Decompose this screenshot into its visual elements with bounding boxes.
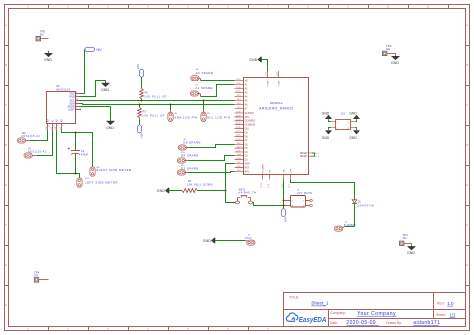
svg-text:D13/SCK: D13/SCK bbox=[245, 113, 255, 115]
connector J13 LEFT SIDE METER bbox=[77, 178, 118, 187]
svg-text:H: H bbox=[5, 303, 7, 307]
svg-text:11.21: 11.21 bbox=[236, 131, 241, 133]
+5V net flag below J3 bbox=[282, 208, 288, 222]
wire KEY1 to +5V node bbox=[252, 203, 283, 206]
node J6/SCL bbox=[203, 100, 205, 102]
svg-text:7: 7 bbox=[62, 126, 63, 128]
wire U2 A3 to right meter bbox=[62, 131, 93, 167]
+5V net flag above R2 bbox=[136, 64, 143, 78]
svg-text:A: A bbox=[5, 23, 7, 27]
svg-text:6: 6 bbox=[57, 126, 58, 128]
svg-text:1.0: 1.0 bbox=[447, 301, 454, 306]
svg-text:Company:: Company: bbox=[330, 311, 346, 315]
wire hole pin4 to ground bbox=[355, 128, 356, 131]
svg-text:G: G bbox=[466, 263, 468, 267]
wire hole pin1 to ground bbox=[329, 119, 331, 121]
wire J15 to module RX0 bbox=[188, 172, 235, 173]
svg-text:8: 8 bbox=[76, 92, 77, 94]
diode D1 1N4007W bbox=[352, 200, 374, 208]
svg-text:+5A: +5A bbox=[282, 169, 285, 173]
svg-text:10K PULL UP: 10K PULL UP bbox=[144, 95, 167, 99]
svg-text:A4-B4S_TH: A4-B4S_TH bbox=[238, 190, 256, 194]
svg-text:ALRT: ALRT bbox=[68, 108, 75, 112]
ground below TP1 bbox=[408, 247, 416, 250]
test point TP1 bbox=[400, 233, 412, 246]
wire U2 A1 to J9 bbox=[37, 131, 53, 156]
title block bbox=[284, 293, 466, 327]
svg-text:11.16: 11.16 bbox=[236, 112, 241, 114]
svg-text:12.11: 12.11 bbox=[261, 183, 263, 188]
resistor R3 10K PULL UP bbox=[138, 105, 165, 125]
svg-text:11.6: 11.6 bbox=[237, 107, 241, 109]
U2 bottom pins A0-A3 bbox=[48, 124, 62, 131]
svg-text:D12/MISO: D12/MISO bbox=[245, 121, 256, 123]
wire U2 GND pin to ground bbox=[80, 81, 106, 97]
svg-text:12.8: 12.8 bbox=[268, 184, 270, 188]
svg-text:GND: GND bbox=[322, 136, 330, 140]
svg-text:Drawn By:: Drawn By: bbox=[386, 321, 402, 325]
svg-text:A: A bbox=[466, 23, 468, 27]
svg-text:RX0: RX0 bbox=[245, 171, 250, 173]
svg-text:GND: GND bbox=[106, 126, 114, 130]
wire +VIN pin to diode D1 bbox=[291, 180, 355, 200]
svg-text:C: C bbox=[466, 103, 468, 107]
svg-text:11.22: 11.22 bbox=[236, 135, 241, 137]
svg-text:+5V: +5V bbox=[284, 217, 288, 222]
svg-text:GND: GND bbox=[69, 95, 75, 99]
wire J14 to module D3 bbox=[188, 156, 235, 161]
node C1 bottom bbox=[75, 173, 77, 175]
svg-text:COM: COM bbox=[267, 80, 269, 85]
ground hole bottom-right bbox=[354, 131, 360, 134]
wire J8 to module A0 bbox=[201, 80, 235, 82]
svg-text:B: B bbox=[5, 63, 7, 67]
svg-text:10.4: 10.4 bbox=[237, 103, 241, 105]
node J5/SDA bbox=[170, 104, 172, 106]
node R3/SDA bbox=[139, 104, 141, 106]
svg-text:COM: COM bbox=[278, 80, 280, 85]
ground at U2 GND pin bbox=[102, 81, 110, 87]
svg-text:Sheet:: Sheet: bbox=[436, 313, 446, 317]
node J3 pin1 bbox=[283, 200, 285, 202]
svg-text:GND: GND bbox=[349, 136, 357, 140]
connector J7 A1 SPARE bbox=[190, 85, 213, 97]
module MODUL1 ARDUINO_NANO2 bbox=[244, 78, 309, 175]
+5V net flag to U2 VDD bbox=[85, 48, 103, 53]
wire +5V flag to U2 VDD pin bbox=[80, 50, 85, 94]
svg-text:+5V PINS: +5V PINS bbox=[296, 191, 312, 195]
svg-text:10.3: 10.3 bbox=[237, 99, 241, 101]
ground left of J1 VCC bbox=[212, 238, 215, 243]
wire RESET tie bbox=[312, 153, 315, 156]
svg-text:D11/MOSI: D11/MOSI bbox=[245, 125, 256, 127]
svg-text:11.19: 11.19 bbox=[236, 123, 241, 125]
svg-text:4: 4 bbox=[48, 126, 49, 128]
svg-text:E: E bbox=[466, 183, 468, 187]
wire SDA bus bbox=[80, 104, 235, 105]
svg-text:GND: GND bbox=[407, 251, 415, 255]
module top pins COM COM bbox=[268, 71, 279, 78]
connector J9 ADS1115-A1 bbox=[24, 148, 47, 159]
svg-text:B: B bbox=[466, 63, 468, 67]
svg-text:11.2: 11.2 bbox=[315, 153, 319, 155]
wire J5 to SDA bus bbox=[170, 105, 172, 111]
wire U2 A2 to left meter bbox=[57, 131, 80, 178]
connector J14 D5 SPARE bbox=[177, 152, 198, 163]
svg-text:+5V: +5V bbox=[140, 133, 144, 138]
svg-text:J11: J11 bbox=[341, 112, 346, 116]
connector J15 D3 SPARE bbox=[177, 165, 198, 175]
svg-text:GND: GND bbox=[203, 239, 211, 243]
wire hole pin3 to ground bbox=[355, 119, 356, 121]
svg-text:11.12: 11.12 bbox=[236, 83, 241, 85]
svg-text:GND: GND bbox=[391, 61, 399, 65]
svg-text:11.23: 11.23 bbox=[236, 139, 241, 141]
svg-text:SG: SG bbox=[403, 236, 408, 240]
svg-text:9: 9 bbox=[76, 102, 77, 104]
module RESET pins bbox=[309, 153, 312, 156]
svg-text:E: E bbox=[5, 183, 7, 187]
svg-text:RST: RST bbox=[245, 167, 250, 169]
svg-text:EasyEDA: EasyEDA bbox=[299, 315, 327, 324]
svg-text:1: 1 bbox=[76, 105, 77, 107]
svg-text:D: D bbox=[466, 143, 468, 147]
svg-text:11.11: 11.11 bbox=[236, 87, 240, 89]
module left pins bbox=[235, 81, 244, 172]
wire ground to COM pin bbox=[261, 60, 267, 72]
svg-text:G: G bbox=[5, 263, 7, 267]
wire J6 to SCL bus bbox=[203, 101, 205, 111]
svg-text:10.7: 10.7 bbox=[237, 147, 241, 149]
ground hole bottom-left bbox=[326, 131, 332, 134]
svg-text:Date:: Date: bbox=[330, 321, 338, 325]
svg-text:5-12VDC: 5-12VDC bbox=[344, 223, 356, 227]
connector J8 A0 SPARE bbox=[191, 69, 214, 81]
chip U2 ADS1115 bbox=[47, 84, 76, 123]
svg-text:SDA LCD PIN: SDA LCD PIN bbox=[174, 116, 198, 120]
connector J6 SCL LCD PIN bbox=[201, 110, 230, 121]
connector J12 RIGHT SIDE METER bbox=[90, 167, 132, 176]
ground at module top bbox=[258, 57, 261, 62]
svg-text:11.9: 11.9 bbox=[237, 95, 241, 97]
wire J4 to module D6 bbox=[189, 145, 235, 148]
connector J2 5-12VDC bbox=[335, 221, 356, 231]
node J3 pin3 bbox=[283, 205, 285, 207]
svg-text:VCC: VCC bbox=[245, 236, 252, 240]
svg-text:Sheet_1: Sheet_1 bbox=[311, 301, 329, 306]
svg-text:12.1: 12.1 bbox=[289, 184, 291, 188]
svg-text:TITLE:: TITLE: bbox=[289, 296, 299, 300]
test point TP5 bbox=[36, 29, 49, 41]
svg-text:C1: C1 bbox=[81, 149, 85, 153]
ground hole top-left bbox=[326, 116, 332, 119]
svg-text:10K PULL DOWN: 10K PULL DOWN bbox=[187, 183, 213, 187]
svg-text:RIGHT SIDE METER: RIGHT SIDE METER bbox=[96, 168, 131, 172]
connector J1 VCC bbox=[245, 234, 255, 245]
wire +5A pin to +5V flag bbox=[283, 180, 285, 209]
svg-text:11.17: 11.17 bbox=[236, 115, 241, 117]
connector J10 ADS1115-A0 bbox=[17, 132, 40, 143]
U2 right pins VDD GND SCL SDA ADDR ALRT bbox=[76, 94, 80, 110]
wire D1 to J2 bbox=[345, 203, 355, 226]
wire U2 A0 to J10 bbox=[30, 131, 48, 141]
svg-text:RESET: RESET bbox=[300, 156, 308, 158]
svg-text:+5V: +5V bbox=[96, 48, 103, 52]
ground below TP5 bbox=[45, 51, 53, 57]
svg-text:ADS1115-A0: ADS1115-A0 bbox=[22, 135, 41, 138]
svg-text:11.20: 11.20 bbox=[236, 127, 241, 129]
svg-text:REV:: REV: bbox=[437, 302, 445, 306]
ground left of R4 bbox=[166, 188, 169, 193]
svg-text:P2_AREF: P2_AREF bbox=[261, 163, 264, 173]
connector J3 +5V PINS bbox=[284, 190, 313, 208]
svg-text:D: D bbox=[5, 143, 7, 147]
wire hole pin2 to ground bbox=[329, 128, 331, 131]
svg-text:10.9: 10.9 bbox=[237, 162, 241, 164]
svg-text:LEFT SIDE METER: LEFT SIDE METER bbox=[85, 181, 118, 185]
capacitor C1 470uF bbox=[68, 133, 89, 174]
test point TP4 bbox=[34, 270, 49, 282]
svg-text:10K PULL UP: 10K PULL UP bbox=[142, 113, 165, 117]
svg-text:ARDUINO_NANO2: ARDUINO_NANO2 bbox=[259, 106, 293, 110]
ground at U2 ADDR bbox=[107, 121, 115, 124]
svg-text:C: C bbox=[5, 103, 7, 107]
svg-text:11.31: 11.31 bbox=[236, 166, 241, 168]
svg-text:GND: GND bbox=[157, 189, 165, 193]
svg-text:RESET: RESET bbox=[300, 153, 308, 155]
node R2/SCL bbox=[141, 100, 143, 102]
wire J7 to module A1 bbox=[201, 85, 235, 97]
node R4/KEY junction bbox=[225, 190, 227, 192]
resistor R4 10K PULL DOWN bbox=[169, 180, 226, 192]
svg-text:ADS1115: ADS1115 bbox=[56, 88, 71, 92]
svg-text:5: 5 bbox=[53, 126, 54, 128]
svg-text:11.3: 11.3 bbox=[315, 156, 319, 158]
wire ground to J1 VCC bbox=[215, 240, 245, 242]
mounting holes connector J11 bbox=[331, 112, 355, 130]
svg-text:11.29: 11.29 bbox=[236, 158, 241, 160]
svg-text:D5 SPARE: D5 SPARE bbox=[181, 154, 199, 158]
svg-text:GND: GND bbox=[322, 112, 330, 116]
svg-text:11.13: 11.13 bbox=[236, 79, 241, 81]
svg-text:17.2: 17.2 bbox=[266, 72, 268, 76]
wire module D-pin to KEY1 bbox=[226, 164, 236, 203]
svg-text:SG: SG bbox=[40, 32, 45, 36]
svg-text:10: 10 bbox=[76, 99, 78, 101]
svg-text:470uF: 470uF bbox=[81, 153, 89, 157]
ground below TP2 bbox=[392, 56, 400, 59]
svg-text:+VIN: +VIN bbox=[290, 168, 292, 173]
wire U2 ADDR to ground bbox=[80, 107, 111, 122]
svg-text:MODUL1: MODUL1 bbox=[270, 101, 283, 105]
svg-text:1/1: 1/1 bbox=[450, 312, 457, 317]
node C1 top bbox=[75, 132, 77, 134]
svg-text:11.8: 11.8 bbox=[277, 72, 279, 76]
svg-text:11.18: 11.18 bbox=[236, 119, 241, 121]
svg-text:D6 SPARE: D6 SPARE bbox=[183, 141, 201, 145]
EasyEDA logo bbox=[286, 313, 298, 321]
svg-text:A1 SPARE: A1 SPARE bbox=[195, 86, 213, 90]
module bottom pins bbox=[263, 175, 291, 180]
svg-text:11.10: 11.10 bbox=[236, 91, 241, 93]
svg-text:GND: GND bbox=[249, 58, 257, 62]
svg-text:GND: GND bbox=[245, 163, 250, 165]
svg-text:1N4007W: 1N4007W bbox=[357, 204, 374, 208]
svg-text:10.8: 10.8 bbox=[237, 154, 241, 156]
svg-text:10.5: 10.5 bbox=[237, 170, 241, 172]
wire SCL bus bbox=[80, 100, 235, 102]
svg-text:3V3: 3V3 bbox=[245, 117, 250, 119]
svg-text:10.6: 10.6 bbox=[237, 143, 241, 145]
svg-text:11.27: 11.27 bbox=[236, 151, 241, 153]
connector J5 SDA LCD PIN bbox=[168, 110, 198, 121]
svg-text:+5V: +5V bbox=[136, 64, 140, 69]
svg-text:GND: GND bbox=[44, 58, 52, 62]
resistor R2 10K PULL UP bbox=[140, 78, 167, 101]
svg-text:3: 3 bbox=[76, 95, 77, 97]
+5V net flag below R3 bbox=[138, 125, 144, 139]
svg-text:2: 2 bbox=[76, 108, 77, 110]
push button KEY1 bbox=[235, 187, 256, 204]
svg-text:D10: D10 bbox=[245, 129, 250, 131]
test point TP2 bbox=[383, 44, 396, 56]
svg-text:GND: GND bbox=[349, 112, 357, 116]
svg-text:A0 SPARE: A0 SPARE bbox=[196, 71, 214, 75]
svg-text:SCL LCD PIN: SCL LCD PIN bbox=[207, 116, 230, 120]
svg-text:GND: GND bbox=[101, 88, 109, 92]
connector J4 D6 SPARE bbox=[178, 139, 201, 150]
ground hole top-right bbox=[354, 116, 360, 119]
